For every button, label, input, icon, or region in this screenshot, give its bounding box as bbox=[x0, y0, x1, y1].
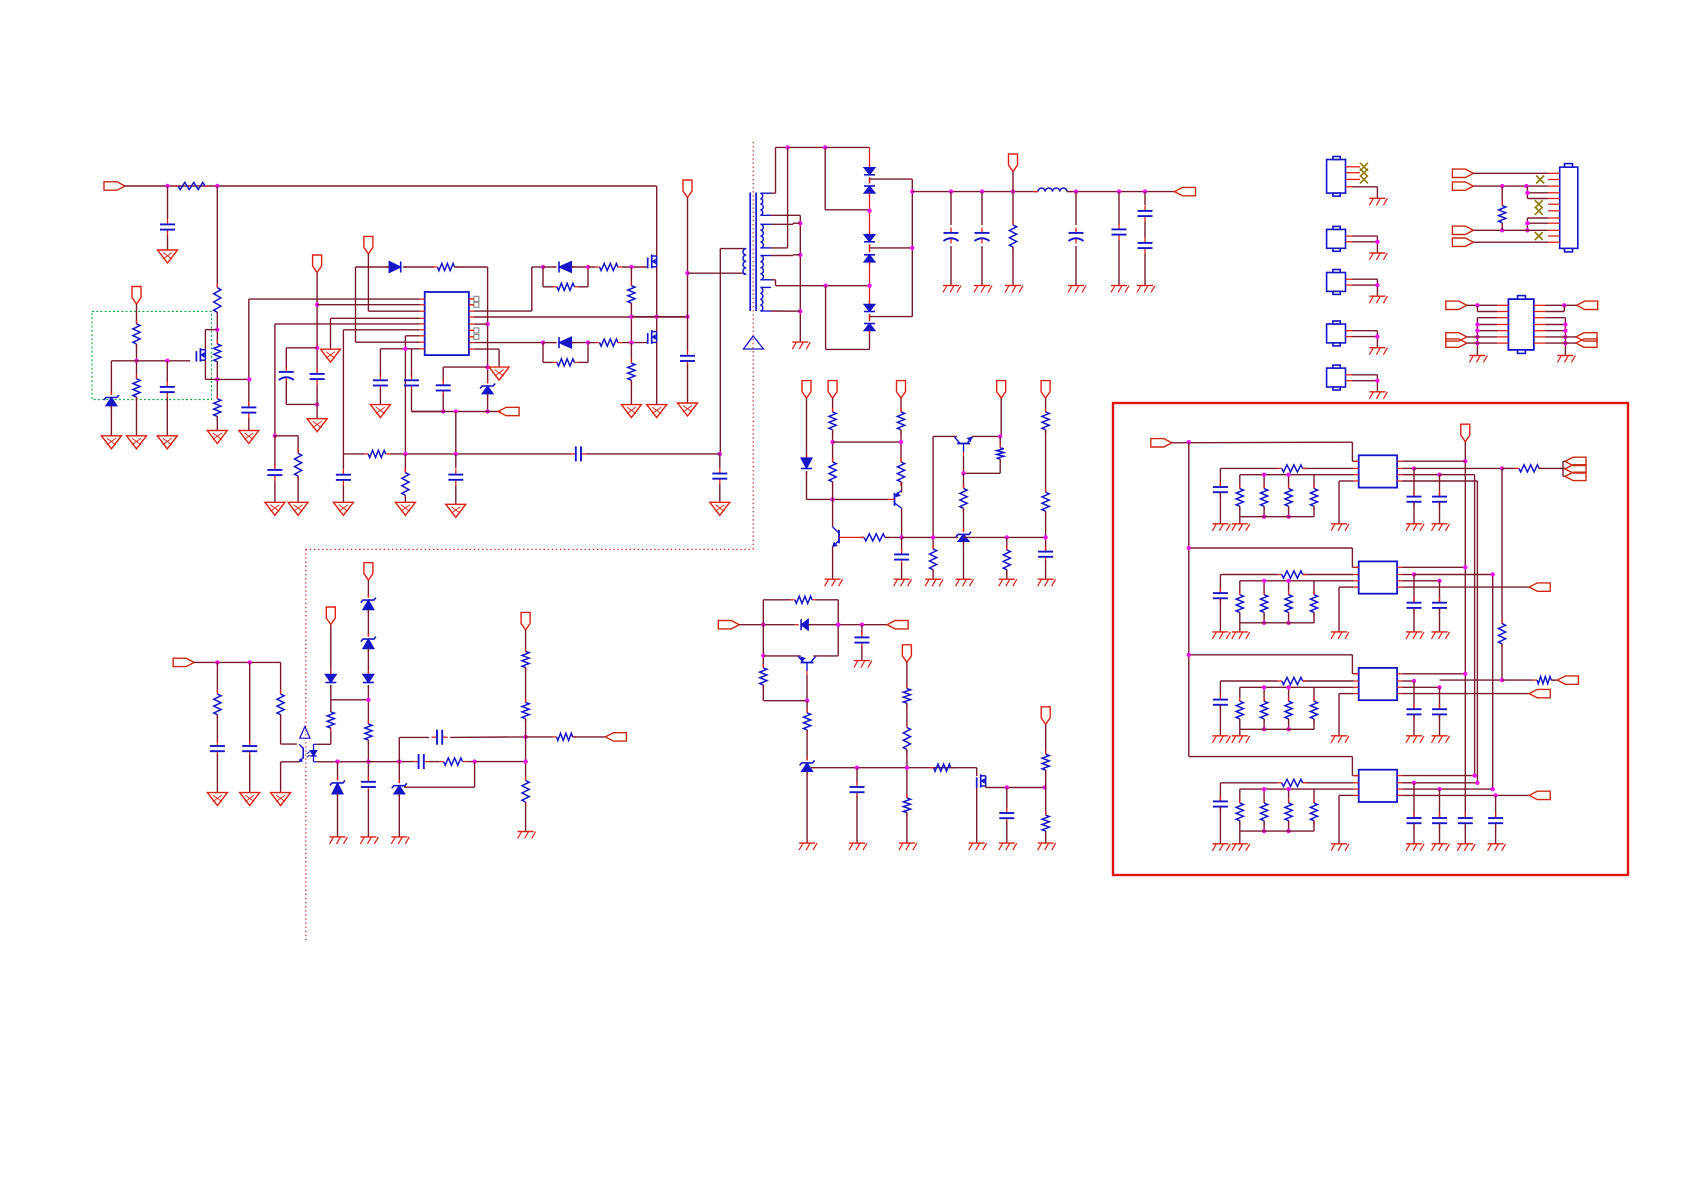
wire bbox=[739, 624, 795, 626]
wire to gnd bbox=[1376, 337, 1378, 348]
ground GND9 bbox=[265, 502, 285, 515]
wire pin4L bbox=[1339, 694, 1354, 736]
diode D lower bbox=[553, 337, 575, 348]
wire bbox=[1220, 468, 1277, 486]
isolation marker triangle bbox=[744, 336, 764, 349]
diode D6 bbox=[864, 231, 875, 248]
wire join bbox=[1376, 375, 1378, 381]
wire row feed bbox=[1189, 547, 1353, 549]
ground earth bbox=[1212, 844, 1230, 851]
capacitor C18 series bbox=[570, 446, 586, 461]
mosfet Q3 lower bbox=[648, 330, 657, 344]
nc square pin bbox=[469, 302, 479, 307]
wire pin3L bbox=[1240, 788, 1354, 790]
wire bbox=[442, 394, 444, 412]
ground GND19 earth bbox=[974, 286, 992, 293]
resistor R31 gate bbox=[930, 764, 955, 771]
zener D18 bbox=[330, 762, 345, 837]
junction J49 bbox=[1043, 535, 1047, 539]
mosfet Q1 startup bbox=[196, 348, 205, 362]
junction J52 bbox=[860, 623, 864, 627]
wire bbox=[869, 331, 871, 333]
resistor R27 bbox=[804, 701, 811, 761]
wire bbox=[525, 719, 527, 781]
wire pin8R bbox=[474, 342, 543, 344]
wire bbox=[1239, 831, 1241, 844]
resistor RF1a bbox=[1278, 571, 1307, 578]
wire loop top bbox=[763, 600, 838, 625]
junction J7 bbox=[247, 377, 251, 381]
connector CN1 bbox=[1327, 157, 1346, 197]
resistor R11 bbox=[1009, 192, 1016, 286]
wire bbox=[275, 436, 298, 468]
input port P2 bbox=[718, 621, 739, 629]
port flag CS bbox=[498, 407, 519, 415]
junction J31 bbox=[910, 246, 914, 250]
wire bbox=[367, 649, 369, 675]
resistor R39 bbox=[553, 733, 577, 740]
ground GND38 earth bbox=[999, 843, 1017, 850]
capacitor CF0c bbox=[1432, 475, 1447, 524]
diode D12 bbox=[795, 619, 812, 630]
pin stub bbox=[1397, 586, 1402, 588]
wire bbox=[1219, 493, 1221, 524]
pin stub bbox=[1548, 217, 1560, 219]
pin stub bbox=[1397, 480, 1402, 482]
wire bbox=[487, 394, 489, 412]
resistor R9 gate pulldown upper bbox=[628, 267, 635, 341]
resistor R26 bbox=[760, 664, 767, 689]
junction bbox=[1475, 329, 1479, 333]
capacitor C1 bbox=[160, 186, 175, 250]
resistor Rg lower bbox=[596, 339, 622, 346]
resistor R29 bbox=[903, 724, 910, 754]
wire pin1R row1 bbox=[1402, 460, 1465, 462]
capacitor CF2a bbox=[1213, 694, 1228, 710]
junction bbox=[1412, 781, 1416, 785]
junction J9 bbox=[315, 346, 319, 350]
transformer primary winding bbox=[743, 249, 746, 275]
pin stub bbox=[1397, 788, 1402, 790]
ground earth bbox=[1331, 844, 1349, 851]
power flag F5 bbox=[1041, 381, 1050, 399]
wire bbox=[412, 389, 444, 412]
node upper gate A bbox=[541, 265, 545, 269]
pin stub bbox=[1354, 680, 1359, 682]
port flag OUT1b bbox=[1565, 465, 1586, 473]
wire gate entry bbox=[951, 768, 977, 776]
diode D14 bbox=[325, 671, 336, 689]
wire bbox=[832, 398, 834, 412]
wire pin3R bbox=[1402, 580, 1439, 582]
wire source rail bbox=[217, 378, 249, 380]
junction bbox=[1286, 829, 1290, 833]
junction feed bbox=[1187, 653, 1191, 657]
ground GND28 earth bbox=[894, 579, 912, 586]
wire pins8910 join bbox=[1527, 218, 1548, 230]
isolation barrier vertical 2 bbox=[305, 549, 307, 940]
wire fan bbox=[1560, 461, 1565, 476]
resistor R3 bbox=[214, 340, 221, 366]
ground GND33 earth bbox=[854, 661, 872, 668]
wire bbox=[901, 482, 903, 493]
ground earth bbox=[1406, 844, 1424, 851]
ground earth bbox=[1232, 524, 1250, 531]
resistor RF0p0 bbox=[1236, 475, 1243, 517]
wire bbox=[411, 349, 413, 377]
wire Q2 drain bbox=[656, 186, 658, 256]
resistor R15 bbox=[829, 458, 836, 486]
pin2 no-connect bbox=[1536, 176, 1544, 184]
wire bbox=[870, 247, 913, 249]
wire pin4R rail bbox=[474, 316, 688, 318]
wire bbox=[870, 316, 913, 318]
resistor RF2p0 bbox=[1236, 687, 1243, 729]
zener D13 tl431 bbox=[800, 757, 815, 775]
wire bbox=[1045, 511, 1047, 551]
wire Q6 base stem bbox=[963, 444, 965, 474]
junction bbox=[1286, 787, 1290, 791]
resistor R17 bbox=[897, 408, 904, 434]
diode D10 bbox=[801, 455, 812, 475]
wire pin1R row2 bbox=[1402, 566, 1465, 568]
wire bbox=[1045, 831, 1047, 843]
junction J24 bbox=[823, 145, 827, 149]
port flag IO6 bbox=[1576, 339, 1597, 347]
ground earth bbox=[1432, 736, 1450, 743]
resistor Rg2 lower bbox=[553, 359, 578, 366]
ground GND4 bbox=[127, 436, 147, 449]
wire pin3 bbox=[1473, 185, 1548, 187]
wire pin2 join bbox=[1477, 305, 1497, 311]
resistor RF1p3 bbox=[1310, 581, 1317, 623]
junction J15 bbox=[441, 409, 445, 413]
ground GND42 bbox=[271, 793, 291, 806]
diode D8 bbox=[864, 301, 875, 318]
wire zener row bbox=[964, 536, 1046, 538]
junction feed bbox=[1187, 546, 1191, 550]
junction bbox=[1437, 473, 1441, 477]
capacitor C3 bbox=[241, 402, 256, 418]
wire bbox=[281, 743, 297, 745]
wire chain top bbox=[868, 147, 871, 167]
pin stub L bbox=[1497, 342, 1508, 344]
pin stub bbox=[1397, 794, 1402, 796]
pin stub bbox=[420, 341, 425, 343]
power flag F6 bbox=[902, 645, 911, 663]
wire bbox=[1045, 724, 1047, 754]
junction J1 bbox=[165, 184, 169, 188]
wire flag stem bbox=[687, 198, 689, 353]
pin wire bbox=[1346, 278, 1378, 280]
wire pin2R bbox=[1402, 467, 1414, 469]
pin wire bbox=[1346, 235, 1378, 237]
wire bbox=[885, 536, 902, 538]
capacitor CF1b bbox=[1407, 575, 1422, 632]
junction J34 bbox=[980, 189, 984, 193]
wire top rail bbox=[776, 146, 869, 148]
pin wire bbox=[1346, 374, 1378, 376]
mosfet Q8 bbox=[977, 774, 986, 787]
pin stub bbox=[1548, 203, 1560, 205]
wire bbox=[1045, 398, 1047, 412]
capacitor C13 bbox=[975, 192, 990, 286]
wire bbox=[869, 314, 871, 321]
wire pin5R bbox=[474, 323, 488, 325]
filter ic U4 bbox=[1359, 455, 1397, 487]
wire Q1 source bbox=[205, 360, 217, 379]
port flag OUT1c bbox=[1565, 472, 1586, 480]
wire cap bottom bbox=[286, 381, 317, 404]
capacitor CF2c bbox=[1432, 687, 1447, 736]
port flag P3 bbox=[887, 621, 908, 629]
wire Q8 source bbox=[986, 786, 1045, 788]
startup block outline bbox=[92, 311, 211, 399]
junction J61 bbox=[248, 660, 252, 664]
wire pins345 join bbox=[1527, 186, 1548, 198]
wire CS rail bbox=[412, 411, 501, 413]
wire pin2L bbox=[1303, 574, 1354, 576]
pin stub bbox=[469, 342, 474, 344]
junction bbox=[1463, 672, 1467, 676]
junction bbox=[1500, 678, 1504, 682]
port flag IN4 bbox=[1452, 238, 1473, 246]
wire bbox=[869, 177, 871, 183]
wire flag stem bbox=[367, 254, 369, 311]
wire bbox=[379, 349, 381, 377]
wire bbox=[367, 685, 369, 724]
pin stub bbox=[1548, 185, 1560, 187]
resistor R24 bbox=[1042, 488, 1049, 515]
junction J28 bbox=[823, 284, 827, 288]
junction J62 bbox=[366, 698, 370, 702]
connector CN5 bbox=[1327, 365, 1346, 390]
junction J46 bbox=[998, 434, 1002, 438]
inductor L1 bbox=[1033, 188, 1072, 192]
pin stub bbox=[1548, 210, 1560, 212]
wire bbox=[1220, 575, 1277, 593]
junction J65 bbox=[397, 759, 401, 763]
junction bbox=[1475, 781, 1479, 785]
resistor R34 bbox=[214, 662, 221, 742]
junction J22 bbox=[718, 452, 722, 456]
pin stub bbox=[469, 348, 474, 350]
junction bbox=[1262, 727, 1266, 731]
port flag OUT3b bbox=[1529, 689, 1550, 697]
filter ic U6 bbox=[1359, 668, 1397, 700]
ground GND17 earth bbox=[792, 342, 810, 349]
pin no-connect bbox=[1346, 175, 1368, 183]
wire bbox=[1220, 783, 1277, 801]
mosfet Q2 upper bbox=[648, 255, 657, 269]
wire pin12 bbox=[1473, 241, 1548, 243]
transistor Q6 pnp bbox=[955, 437, 973, 444]
wire bbox=[963, 541, 965, 579]
wire W3 bottom bbox=[771, 280, 776, 286]
pin stub bbox=[1397, 775, 1402, 777]
power flag F3 bbox=[897, 381, 906, 399]
wire opto led cathode row bbox=[317, 761, 526, 763]
zener D11 bbox=[956, 528, 971, 545]
ground earth bbox=[1232, 736, 1250, 743]
wire pin3 gnd chain bbox=[1477, 318, 1497, 356]
wire res bottom rail bbox=[1240, 622, 1314, 624]
capacitor C19 bbox=[336, 454, 351, 502]
wire pin4R row2 out bbox=[1402, 586, 1529, 588]
ground GND41 bbox=[240, 793, 260, 806]
wire bbox=[832, 430, 834, 462]
wire pin2R join bbox=[1545, 305, 1564, 311]
junction J6 bbox=[165, 359, 169, 363]
pin stub bbox=[1354, 586, 1359, 588]
port flag OUT2 bbox=[1529, 583, 1550, 591]
resistor R5 bbox=[133, 320, 140, 348]
wire res bottom rail bbox=[1240, 728, 1314, 730]
junction J30 bbox=[867, 284, 871, 288]
diode D9 bbox=[864, 318, 875, 335]
resistor RF1p1 bbox=[1261, 581, 1268, 623]
wire bbox=[869, 262, 871, 304]
junction bbox=[1286, 473, 1290, 477]
wire bbox=[1502, 467, 1565, 469]
junction bbox=[1262, 685, 1266, 689]
wire bbox=[1045, 770, 1047, 815]
pin stub L bbox=[1497, 330, 1508, 332]
wire feed bbox=[1172, 441, 1353, 444]
wire to gnd bbox=[1376, 285, 1378, 296]
capacitor C15 bbox=[1112, 192, 1127, 286]
wire bbox=[1045, 430, 1047, 492]
wire bbox=[1219, 599, 1221, 632]
resistor R14 bbox=[829, 408, 836, 434]
resistor RO3 bbox=[1533, 677, 1555, 684]
wire bbox=[806, 398, 808, 458]
output port VOUT bbox=[1175, 187, 1196, 195]
ground GND45 earth bbox=[391, 837, 409, 844]
wire bbox=[838, 624, 887, 626]
junction bbox=[1463, 565, 1467, 569]
capacitor C28 bbox=[361, 776, 376, 837]
junction bbox=[1375, 240, 1379, 244]
ground GND15 bbox=[678, 403, 698, 416]
nc square pin bbox=[469, 328, 479, 333]
junction J26 bbox=[798, 253, 802, 257]
wire Q7 base stem bbox=[806, 663, 808, 701]
pin stub bbox=[1397, 580, 1402, 582]
pin stub bbox=[420, 323, 425, 325]
wire bus A bbox=[1464, 442, 1466, 818]
pin stub bbox=[1354, 566, 1359, 568]
wire pin3L bbox=[1240, 474, 1354, 476]
ground GND20 earth bbox=[1005, 286, 1023, 293]
capacitor C8 bbox=[404, 375, 419, 391]
wire pin6 bbox=[343, 330, 419, 454]
ground earth bbox=[1232, 844, 1250, 851]
junction J32 bbox=[910, 189, 914, 193]
ground earth bbox=[1369, 253, 1387, 260]
port flag OUT3a bbox=[1557, 676, 1578, 684]
pin stub bbox=[469, 298, 474, 300]
wire bbox=[525, 802, 527, 832]
junction bbox=[1375, 283, 1379, 287]
junction bbox=[1286, 685, 1290, 689]
junction bbox=[1563, 341, 1567, 345]
wire bbox=[1467, 336, 1497, 338]
connector CN4 bbox=[1327, 321, 1346, 346]
wire pin1 bbox=[249, 299, 420, 406]
input port P4 bbox=[173, 658, 194, 666]
wire bbox=[869, 193, 871, 234]
power flag F1 bbox=[802, 381, 811, 399]
diode D17 bbox=[363, 671, 374, 689]
port flag FIN bbox=[1151, 439, 1172, 447]
zener D15 bbox=[361, 594, 376, 613]
wire feed drop bbox=[1352, 757, 1358, 776]
resistor R12 bbox=[364, 450, 390, 457]
connector CN2 bbox=[1327, 226, 1346, 251]
pin stub bbox=[420, 329, 425, 331]
resistor R43 bbox=[1499, 186, 1506, 230]
ground earth bbox=[1432, 844, 1450, 851]
transformer secondary W4 bbox=[760, 287, 771, 311]
port flag OUT4 bbox=[1529, 791, 1550, 799]
capacitor CF0a bbox=[1213, 482, 1228, 498]
wire bbox=[455, 412, 457, 454]
capacitor C6 bbox=[267, 465, 282, 481]
wire bbox=[833, 441, 901, 443]
junction J66 bbox=[472, 759, 476, 763]
wire opto e bbox=[281, 762, 300, 793]
pin stub bbox=[1354, 673, 1359, 675]
pin wire bbox=[1346, 380, 1378, 382]
ground earth bbox=[1369, 296, 1387, 303]
power flag VO1 bbox=[1009, 154, 1018, 172]
pin stub bbox=[1354, 775, 1359, 777]
wire Q4 emitter bbox=[832, 547, 834, 580]
pin stub bbox=[1354, 782, 1359, 784]
pin wire bbox=[1346, 241, 1378, 243]
capacitor C17 bbox=[1138, 222, 1153, 286]
resistor R32 bbox=[1042, 750, 1049, 774]
node lower gate A bbox=[541, 340, 545, 344]
pin stub bbox=[1548, 198, 1560, 200]
pin wire bbox=[1346, 330, 1378, 332]
junction J12 bbox=[403, 347, 407, 351]
resistor R1 bbox=[174, 182, 209, 189]
wire Q2 source bbox=[656, 267, 658, 317]
port flag IO5 bbox=[1576, 333, 1597, 341]
wire bbox=[331, 700, 369, 712]
capacitor CF1a bbox=[1213, 588, 1228, 604]
pin stub bbox=[1354, 474, 1359, 476]
resistor R8 bbox=[434, 263, 459, 270]
junction bbox=[1412, 572, 1416, 576]
pin stub bbox=[1354, 794, 1359, 796]
junction bbox=[1475, 303, 1479, 307]
ground GND5 bbox=[157, 436, 177, 449]
pwm controller U1 bbox=[425, 292, 469, 355]
wire join bbox=[1376, 331, 1378, 337]
nc square pin bbox=[469, 334, 479, 339]
wire feed drop bbox=[1352, 548, 1358, 567]
wire row feed bbox=[1189, 654, 1353, 656]
pin stub bbox=[1397, 782, 1402, 784]
wire Q4 collector bbox=[832, 482, 834, 527]
capacitor CF3a bbox=[1213, 796, 1228, 812]
wire bbox=[166, 361, 168, 382]
wire pin2R row4 bbox=[1414, 782, 1477, 784]
capacitor C2 bbox=[160, 382, 175, 398]
